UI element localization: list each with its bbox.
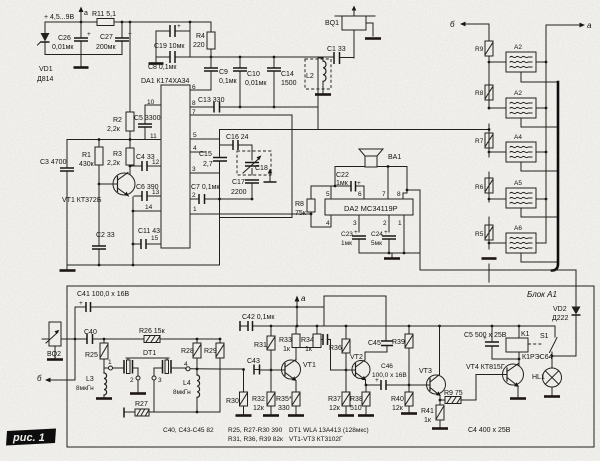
svg-text:C43: C43: [247, 358, 260, 365]
svg-text:DA1 К174ХА34: DA1 К174ХА34: [141, 78, 190, 85]
node a arrow (top): [79, 7, 88, 24]
svg-text:BA1: BA1: [388, 154, 401, 161]
capacitor C41: [75, 291, 324, 312]
wire right bus 1: [545, 25, 547, 243]
svg-text:C7 0,1мк: C7 0,1мк: [191, 184, 220, 191]
svg-text:C24: C24: [371, 231, 383, 238]
svg-text:R34: R34: [301, 337, 314, 344]
node 1: [104, 359, 113, 370]
capacitor C40: [84, 329, 97, 344]
capacitor C4: [129, 154, 161, 171]
resistor R41: [421, 400, 448, 429]
svg-text:C16 24: C16 24: [226, 134, 249, 141]
svg-text:R29: R29: [204, 348, 217, 355]
capacitor C23: [341, 229, 366, 253]
node a arrow (block): [295, 294, 306, 327]
svg-text:12к: 12к: [329, 405, 341, 412]
svg-text:C27: C27: [100, 34, 113, 41]
svg-text:C18: C18: [255, 165, 268, 172]
transistor Q2 VT1b: [282, 360, 316, 381]
resistor R11: [92, 11, 116, 26]
wire loop VT2 top: [324, 296, 386, 341]
resistor R27: [124, 401, 154, 418]
svg-text:R11 5,1: R11 5,1: [92, 11, 116, 18]
svg-text:2,2к: 2,2к: [107, 126, 121, 133]
svg-text:11: 11: [150, 133, 157, 140]
lamp HL1: [532, 356, 562, 397]
pin 7: [382, 167, 388, 200]
svg-text:+: +: [354, 229, 358, 236]
resistor R38: [350, 385, 374, 416]
wire VD2 to lamp: [552, 355, 576, 357]
wire VT4 base: [476, 375, 503, 401]
pin 4: [190, 145, 205, 152]
node 3: [152, 376, 162, 412]
SECTION: DA1 ic area: [40, 21, 311, 271]
svg-text:R25: R25: [85, 352, 98, 359]
svg-text:R26 15к: R26 15к: [139, 328, 166, 335]
capacitor C13: [190, 97, 318, 113]
diode VD1 zener: [37, 22, 54, 83]
svg-text:VT4 КТ815Г: VT4 КТ815Г: [466, 364, 505, 371]
svg-text:8: 8: [397, 191, 401, 198]
svg-text:200мк: 200мк: [96, 44, 116, 51]
svg-text:A2: A2: [514, 44, 522, 51]
svg-text:C4 400 х 25В: C4 400 х 25В: [468, 427, 511, 434]
diode VD2: [552, 270, 581, 356]
pin 12: [152, 159, 160, 166]
wire ground rail 265: [67, 264, 220, 266]
resistor R6: [475, 178, 493, 200]
svg-text:C45: C45: [368, 340, 381, 347]
capacitor C43: [242, 358, 272, 375]
svg-text:R41: R41: [421, 408, 434, 415]
svg-text:8мкГн: 8мкГн: [76, 385, 94, 392]
svg-text:L3: L3: [86, 376, 94, 383]
capacitor C16: [220, 134, 253, 150]
svg-text:рис. 1: рис. 1: [12, 432, 45, 444]
svg-text:VT3: VT3: [419, 368, 432, 375]
svg-text:C10: C10: [247, 71, 260, 78]
svg-text:а: а: [587, 21, 592, 30]
pin 3: [353, 215, 359, 232]
capacitor C14: [267, 56, 297, 109]
svg-text:Блок А1: Блок А1: [527, 290, 557, 299]
svg-text:C17: C17: [232, 179, 245, 186]
svg-text:C1 33: C1 33: [327, 46, 346, 53]
wire VD1 bottom: [45, 54, 122, 56]
pin 10: [145, 99, 161, 106]
svg-text:0,01мк: 0,01мк: [52, 44, 74, 51]
pin 5: [326, 186, 331, 199]
crystal BQ1: [325, 6, 381, 59]
capacitor C22: [331, 172, 364, 192]
wire long to filter bank: [220, 129, 490, 131]
transistor Q3 VT2: [350, 354, 370, 380]
svg-text:1: 1: [193, 206, 197, 213]
filter A5: [489, 180, 558, 217]
ground (bus bottom): [482, 257, 497, 260]
svg-text:+: +: [79, 300, 83, 307]
svg-text:R27: R27: [135, 401, 148, 408]
resistor R1: [79, 138, 103, 185]
resistor R32: [252, 370, 279, 416]
svg-text:1500: 1500: [281, 80, 297, 87]
ground (C19 block): [149, 57, 164, 64]
inductor L3: [76, 368, 112, 399]
svg-text:C19 10мк: C19 10мк: [154, 43, 185, 50]
capacitor C9: [204, 57, 238, 90]
capacitor C6: [134, 184, 161, 201]
filter A6: [489, 225, 558, 262]
node 4: [184, 361, 190, 371]
svg-text:HL1: HL1: [532, 374, 545, 381]
resistor R8a 75k: [295, 186, 331, 227]
svg-text:L2: L2: [306, 73, 314, 80]
node b arrow (bottom left): [37, 374, 75, 383]
capacitor C44: [321, 334, 331, 370]
op-amp U2 DA2 MC34119P: [325, 199, 413, 215]
wire DA2 bottom rail: [359, 252, 420, 254]
svg-text:C15: C15: [199, 151, 212, 158]
pin 14: [133, 204, 161, 211]
capacitor C42: [240, 314, 275, 331]
svg-text:1мк: 1мк: [336, 180, 349, 187]
resistor R30: [226, 370, 252, 416]
resistor R36: [329, 325, 350, 370]
svg-text:VT1: VT1: [303, 362, 316, 369]
capacitor C5: [134, 105, 161, 140]
svg-text:1: 1: [398, 220, 402, 227]
inductor L2 with shield: [305, 57, 331, 130]
svg-text:R31, R36, R39 82к: R31, R36, R39 82к: [228, 436, 283, 443]
SECTION: block A1: [37, 270, 594, 447]
svg-text:C9: C9: [219, 69, 228, 76]
svg-text:5мк: 5мк: [371, 240, 382, 247]
svg-text:R9 75: R9 75: [444, 390, 463, 397]
SECTION: mixer caps: [190, 115, 489, 265]
svg-text:R31: R31: [254, 342, 267, 349]
svg-text:+: +: [87, 31, 91, 38]
svg-text:а: а: [301, 294, 306, 303]
resistor R33: [279, 326, 300, 353]
SECTION: DA2 amp: [295, 149, 576, 270]
pin 8: [397, 191, 407, 199]
wire C17 vertical: [251, 145, 253, 199]
svg-text:DA2 МС34119Р: DA2 МС34119Р: [344, 204, 398, 213]
resistor R37: [328, 370, 354, 416]
svg-text:BQ1: BQ1: [325, 20, 339, 27]
capacitor C3: [40, 140, 74, 266]
svg-text:R30: R30: [226, 398, 239, 405]
svg-text:8мкГн: 8мкГн: [173, 389, 191, 396]
inductor L4: [173, 369, 200, 412]
svg-text:C6 390: C6 390: [136, 184, 159, 191]
SECTION: labels: [6, 427, 369, 446]
capacitor C17: [231, 179, 259, 196]
svg-text:C3 4700: C3 4700: [40, 159, 67, 166]
SECTION: filter bank: [450, 20, 592, 282]
svg-text:R6: R6: [475, 184, 484, 191]
pin 7: [192, 109, 196, 116]
svg-text:C41 100,0 х 16В: C41 100,0 х 16В: [77, 291, 129, 298]
pin 2: [192, 192, 196, 199]
svg-text:К1РЭС64: К1РЭС64: [522, 354, 553, 361]
pin 4: [326, 215, 331, 227]
svg-text:S1: S1: [540, 333, 549, 340]
svg-text:Д814: Д814: [37, 76, 54, 83]
relay K1: [506, 325, 553, 366]
pin 2: [383, 215, 389, 232]
capacitor C45: [368, 340, 393, 352]
svg-text:C46: C46: [381, 363, 393, 370]
svg-text:2: 2: [192, 192, 196, 199]
svg-text:R36: R36: [329, 345, 342, 352]
capacitor C27: [96, 21, 132, 55]
svg-text:10: 10: [147, 99, 155, 106]
wire collector join VT1b: [296, 348, 317, 361]
svg-text:R2: R2: [113, 117, 122, 124]
svg-text:2,7: 2,7: [203, 161, 213, 168]
wire VT2 base: [331, 369, 353, 371]
ground (DA2): [384, 253, 400, 259]
delay line DT1: [113, 350, 187, 376]
capacitor C26: [52, 22, 91, 55]
svg-text:0,01мк: 0,01мк: [245, 80, 267, 87]
svg-text:R9: R9: [475, 46, 484, 53]
svg-text:4: 4: [184, 361, 188, 368]
svg-text:C11 43: C11 43: [138, 228, 160, 235]
svg-text:VD2: VD2: [553, 306, 567, 313]
filter A2 (2): [489, 90, 557, 127]
svg-text:+: +: [357, 180, 361, 187]
wire signal row: [190, 369, 282, 370]
crystal BQ2: [42, 322, 67, 360]
svg-text:C40, C43-C45 82: C40, C43-C45 82: [163, 427, 214, 434]
pin 1: [398, 215, 404, 253]
capacitor C18 variable: [237, 151, 271, 175]
wire pin7 loop: [190, 115, 292, 218]
resistor R34: [301, 325, 321, 353]
speaker BA1: [334, 149, 407, 193]
svg-text:R40: R40: [391, 396, 404, 403]
svg-text:C2 33: C2 33: [96, 232, 115, 239]
resistor R5: [475, 225, 493, 244]
svg-text:C8 0,1мк: C8 0,1мк: [148, 64, 177, 71]
resistor R3: [107, 138, 134, 174]
svg-text:DT1: DT1: [143, 350, 156, 357]
node a arrow (top right): [546, 21, 592, 30]
fig label: [6, 429, 56, 446]
svg-text:R8: R8: [475, 90, 484, 97]
svg-text:R35*: R35*: [276, 396, 292, 403]
resistor R8: [475, 85, 493, 109]
wire VT2 collector: [365, 352, 387, 360]
wire VT1 emitter column: [132, 197, 134, 265]
resistor R26: [139, 328, 166, 343]
svg-text:2,2к: 2,2к: [107, 160, 121, 167]
svg-text:DT1 WLA 13А413 (128мкс): DT1 WLA 13А413 (128мкс): [289, 427, 369, 434]
svg-text:220: 220: [193, 42, 205, 49]
svg-text:R25, R27-R30 390: R25, R27-R30 390: [228, 427, 283, 434]
wire DT1 bottom: [154, 411, 220, 413]
svg-text:VT1 КТ372Б: VT1 КТ372Б: [62, 197, 102, 204]
svg-text:C40: C40: [84, 329, 97, 336]
svg-text:3: 3: [353, 220, 357, 227]
capacitor C1: [327, 46, 346, 64]
transistor Q1 VT1 KT372B: [62, 173, 135, 205]
svg-text:A5: A5: [514, 180, 522, 187]
pin 6: [358, 186, 364, 199]
svg-text:3: 3: [158, 377, 162, 384]
resistor R40: [391, 392, 417, 414]
resistor R9: [475, 41, 493, 63]
svg-text:R38: R38: [350, 396, 363, 403]
wire C15 vertical: [219, 130, 221, 266]
svg-text:75к: 75к: [295, 210, 307, 217]
capacitor C15: [199, 151, 227, 168]
resistor R9b 75: [439, 390, 476, 404]
svg-text:12к: 12к: [253, 405, 265, 412]
svg-text:б: б: [450, 20, 455, 29]
pin 11: [67, 133, 161, 140]
transistor Q4 VT3: [409, 368, 446, 396]
svg-text:C42 0,1мк: C42 0,1мк: [242, 314, 275, 321]
wire power rail: [45, 21, 211, 23]
svg-text:430к: 430к: [79, 161, 95, 168]
svg-text:6: 6: [192, 84, 196, 91]
wire C42 rail: [240, 325, 555, 327]
svg-text:510: 510: [350, 405, 362, 412]
svg-text:C4 33: C4 33: [136, 154, 155, 161]
svg-text:5: 5: [326, 191, 330, 198]
svg-text:R39: R39: [392, 339, 405, 346]
svg-text:2: 2: [383, 220, 387, 227]
svg-text:R7: R7: [475, 138, 484, 145]
wire VT3 collector: [439, 326, 441, 375]
svg-text:1к: 1к: [424, 417, 432, 424]
svg-text:A2: A2: [514, 90, 522, 97]
svg-text:0,1мк: 0,1мк: [219, 78, 238, 85]
svg-text:+: +: [384, 229, 388, 236]
filter A2 (1): [489, 44, 558, 82]
ground (rail left): [60, 265, 76, 271]
svg-text:330: 330: [278, 405, 290, 412]
svg-text:Д222: Д222: [552, 315, 569, 322]
svg-text:R8: R8: [295, 201, 304, 208]
svg-text:R5: R5: [475, 231, 484, 238]
svg-text:6: 6: [358, 191, 362, 198]
wire long to VD2: [420, 253, 576, 270]
svg-text:VT2: VT2: [350, 354, 363, 361]
svg-text:2200: 2200: [231, 189, 247, 196]
pin 6: [190, 84, 211, 91]
svg-text:R4: R4: [196, 33, 205, 40]
wire C19 block verticals: [156, 22, 190, 57]
capacitor C5b: [464, 325, 519, 359]
svg-text:R1: R1: [82, 152, 91, 159]
svg-text:C14: C14: [281, 71, 294, 78]
svg-text:7: 7: [382, 191, 386, 198]
svg-text:3: 3: [192, 166, 196, 173]
wire pin8 net: [407, 190, 420, 253]
wire thick bus 2: [552, 82, 558, 271]
resistor R35: [276, 381, 304, 416]
transistor Q5 VT4 KT815G: [466, 364, 524, 387]
resistor R31: [254, 325, 275, 370]
resistor R2: [107, 21, 134, 139]
svg-text:R33: R33: [279, 337, 292, 344]
svg-text:C22: C22: [336, 172, 349, 179]
SECTION: top power: [37, 6, 381, 130]
resistor R7: [475, 128, 493, 153]
svg-text:4: 4: [193, 145, 197, 152]
svg-text:8: 8: [192, 100, 196, 107]
capacitor C2: [92, 184, 115, 265]
svg-text:2: 2: [130, 377, 134, 384]
svg-text:K1: K1: [521, 331, 530, 338]
resistor R29: [204, 338, 224, 412]
wire if rail y57: [190, 56, 354, 59]
svg-text:C23: C23: [341, 231, 353, 238]
svg-text:VD1: VD1: [39, 66, 53, 73]
svg-text:а: а: [84, 10, 88, 17]
capacitor C10: [233, 56, 267, 109]
svg-text:+: +: [177, 23, 181, 30]
capacitor C11: [132, 228, 161, 249]
resistor R39: [392, 325, 413, 392]
wire C41 left vertical: [74, 307, 76, 380]
svg-text:R32: R32: [252, 396, 265, 403]
wire left bus: [488, 24, 490, 282]
svg-text:C5 3300: C5 3300: [134, 115, 161, 122]
capacitor C7: [190, 184, 253, 204]
wire main input: [67, 338, 220, 340]
pin 15: [151, 235, 159, 242]
capacitor C19: [154, 23, 190, 50]
svg-text:б: б: [37, 374, 42, 383]
svg-text:C13 330: C13 330: [198, 97, 225, 104]
wire VT4 emitter ground: [510, 386, 526, 399]
pin 5: [190, 132, 220, 139]
svg-text:R28: R28: [181, 348, 194, 355]
svg-text:14: 14: [145, 204, 153, 211]
capacitor C8: [148, 51, 190, 71]
svg-text:5: 5: [193, 132, 197, 139]
switch S1: [540, 326, 557, 356]
capacitor C46: [365, 363, 409, 390]
svg-text:C5 500 х 25В: C5 500 х 25В: [464, 332, 507, 339]
ground (power): [74, 55, 89, 68]
pin 13: [152, 189, 160, 196]
svg-text:BQ2: BQ2: [47, 351, 61, 358]
capacitor C24: [371, 229, 396, 253]
pin 3: [190, 166, 220, 173]
svg-text:1к: 1к: [283, 346, 291, 353]
svg-text:+ 4,5...9В: + 4,5...9В: [44, 14, 74, 21]
svg-text:1: 1: [108, 359, 112, 366]
svg-text:R37: R37: [328, 396, 341, 403]
svg-text:R3: R3: [113, 151, 122, 158]
pin 8: [192, 100, 196, 107]
svg-text:4: 4: [326, 220, 330, 227]
block A1 border: [67, 286, 594, 447]
svg-text:C26: C26: [58, 35, 71, 42]
svg-text:VT1-VT3 КТ3102Г: VT1-VT3 КТ3102Г: [289, 436, 343, 443]
resistor R28: [181, 338, 201, 371]
svg-text:100,0 х 16В: 100,0 х 16В: [372, 372, 407, 379]
filter A4: [489, 134, 557, 171]
